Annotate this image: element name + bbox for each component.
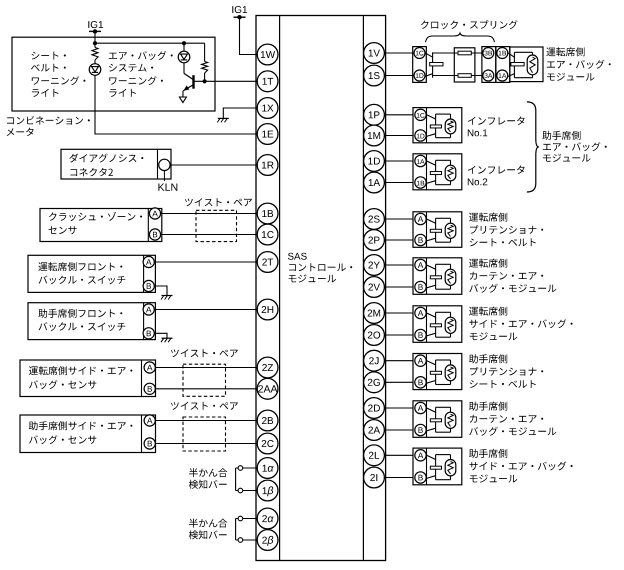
driver airbag module box (508, 47, 543, 82)
wire bus to resistor (204, 43, 206, 61)
wire 1S to clock spring (385, 75, 414, 77)
label twisted pair 3 (171, 402, 238, 410)
pin 1D (364, 151, 385, 172)
wire 1D to inflator 2 (385, 160, 414, 162)
wire 2J to passenger pretensioner seat belt (385, 360, 414, 362)
passenger side airbag module label (469, 449, 573, 483)
wire A to pin 1B (161, 213, 257, 215)
node lamp bus junction (182, 41, 186, 45)
half engagement detection bar 2 (236, 516, 257, 542)
pin 1E (257, 124, 278, 145)
airbag warning lamp (178, 43, 190, 73)
driver side airbag module label (469, 307, 573, 341)
wire 2D to passenger curtain airbag module (385, 407, 414, 409)
wire A to pin 2Z (155, 367, 257, 369)
label KLN (158, 184, 177, 191)
wire B to ground 2 (154, 333, 167, 338)
wire lamp bus (95, 42, 205, 44)
terminal B (passenger buckle) (143, 328, 154, 339)
wire lamp to pin 1E (95, 75, 257, 134)
driver side airbag module box (413, 306, 462, 343)
pin 2P (364, 230, 385, 251)
label clock spring (421, 20, 518, 29)
pin 1T (257, 71, 278, 92)
pin 2Y (364, 255, 385, 276)
diagnosis connector box (61, 149, 171, 179)
driver side airbag sensor box (20, 360, 156, 397)
resistor seat belt lamp (92, 43, 98, 64)
node IG1 junction (93, 41, 97, 45)
half engagement detection bar 1 (236, 466, 257, 493)
driver front buckle switch label (38, 262, 125, 284)
wire IG1 to pin 1W (240, 17, 258, 54)
pin 1a (257, 458, 278, 479)
terminal A (driver side sensor) (144, 362, 155, 373)
combination meter label (7, 116, 90, 136)
label half engagement 1 (189, 468, 228, 489)
wire clock spring lower (433, 75, 482, 77)
pin 1R (257, 155, 278, 176)
clock spring connector 1 (413, 47, 427, 83)
pin 2C (257, 433, 278, 454)
pin 2J (364, 350, 385, 371)
wire A to pin 2T (154, 261, 257, 263)
wire 2A to passenger curtain airbag module (385, 429, 414, 431)
clock spring connector 3B/3A (482, 47, 496, 83)
terminal A (driver buckle) (143, 256, 154, 267)
wire 2Y to driver curtain airbag module (385, 264, 414, 266)
wire clock spring upper (433, 52, 482, 54)
label twisted pair 1 (185, 198, 252, 206)
SAS control module body (256, 16, 386, 561)
driver airbag module label (546, 47, 610, 80)
ground (pin 1X) (217, 118, 229, 122)
terminal A (passenger buckle) (143, 304, 154, 315)
passenger side airbag sensor box (20, 415, 156, 453)
pin 2H (257, 299, 278, 320)
pin 2AA (257, 378, 278, 399)
wire 2O to driver side airbag module (385, 334, 414, 336)
driver pretensioner seat belt box (413, 212, 462, 248)
pin 2T (257, 252, 278, 273)
pin 2b (257, 530, 278, 551)
passenger curtain airbag module box (413, 401, 462, 438)
wire 1M to inflator 1 (385, 135, 414, 137)
driver front buckle switch box (28, 255, 155, 292)
wire pin 1X to ground (223, 108, 257, 118)
driver curtain airbag module label (469, 259, 556, 293)
brace passenger airbag module (527, 102, 539, 192)
pin 1S (364, 65, 385, 86)
pin 1W (257, 44, 278, 65)
wire A to pin 2H (154, 309, 257, 311)
inflator No.1 label (468, 117, 525, 137)
label twisted pair 2 (171, 349, 238, 357)
pin 2O (364, 325, 385, 346)
terminal A (passenger side sensor) (144, 415, 155, 426)
wire 2S to driver pretensioner seat belt (385, 218, 414, 220)
pin 1C (257, 224, 278, 245)
wire B to ground 1 (154, 286, 167, 296)
clock spring connector 1B/1A (496, 47, 510, 83)
wire 2P to driver pretensioner seat belt (385, 239, 414, 241)
inflator No.2 (413, 154, 462, 190)
twisted pair shield 3 (183, 417, 226, 451)
wire B to pin 1C (161, 234, 257, 236)
pin 1P (364, 104, 385, 125)
SAS control module label (288, 253, 352, 283)
wire 1P to inflator 1 (385, 114, 414, 116)
driver curtain airbag module box (413, 258, 462, 295)
pin 2D (364, 398, 385, 419)
clock spring mating symbol (425, 52, 443, 77)
seat belt warning lamp (89, 64, 101, 76)
wire base to pin 1T (194, 80, 257, 82)
IG1 terminal (meter) (88, 21, 103, 34)
wire KLN to pin 1R (170, 164, 257, 166)
label half engagement 2 (189, 519, 228, 540)
brace clock spring (426, 33, 495, 42)
wire 2G to passenger pretensioner seat belt (385, 381, 414, 383)
wire 2I to passenger side airbag module (385, 477, 414, 479)
passenger pretensioner seat belt label (469, 354, 543, 388)
driver side airbag sensor label (29, 366, 132, 389)
passenger front buckle switch label (38, 309, 125, 331)
terminal B (crash sensor) (149, 229, 160, 240)
pin 2I (364, 467, 385, 488)
pin 2B (257, 410, 278, 431)
crash zone sensor box (40, 209, 162, 242)
wire 1A to inflator 2 (385, 182, 414, 184)
wire IG1 to lamp circuit (94, 31, 96, 43)
crash zone sensor label (49, 212, 142, 234)
transistor Q1 (183, 73, 194, 97)
pin 2L (364, 445, 385, 466)
wire B to pin 2C (155, 443, 257, 445)
inflator No.2 label (468, 166, 525, 186)
pin 1b (257, 480, 278, 501)
pin 2V (364, 277, 385, 298)
ground (passenger buckle) (161, 338, 173, 342)
wire 2M to driver side airbag module (385, 312, 414, 314)
wire A to pin 2B (155, 420, 257, 422)
terminal B (passenger side sensor) (144, 438, 155, 449)
passenger side airbag sensor label (29, 421, 133, 444)
inflator No.1 (413, 108, 462, 143)
wire B to pin 2AA (155, 388, 257, 390)
driver pretensioner seat belt label (469, 213, 543, 247)
pin 1X (257, 98, 278, 119)
pin 2S (364, 209, 385, 230)
ground (driver buckle) (161, 296, 173, 300)
diagnosis connector label (69, 154, 143, 177)
pin 2a (257, 508, 278, 529)
resistor airbag lamp (202, 62, 208, 82)
ground arrow (emitter) (179, 97, 186, 103)
passenger front buckle switch box (28, 303, 155, 340)
twisted pair shield 1 (196, 210, 237, 241)
node base junction (203, 79, 207, 83)
label seat belt warning light (31, 52, 85, 97)
terminal B (driver side sensor) (144, 383, 155, 394)
pin 2G (364, 372, 385, 393)
terminal A (crash sensor) (149, 208, 160, 219)
pin 2A (364, 420, 385, 441)
wire 2V to driver curtain airbag module (385, 286, 414, 288)
pin 2M (364, 303, 385, 324)
terminal B (driver buckle) (143, 280, 154, 291)
twisted pair shield 2 (183, 364, 226, 396)
label airbag warning light (109, 51, 173, 97)
pin 2Z (257, 357, 278, 378)
pin 1V (364, 43, 385, 64)
IG1 terminal (module) (232, 6, 247, 19)
passenger pretensioner seat belt box (413, 354, 462, 390)
wire 1V to clock spring (385, 52, 414, 54)
passenger side airbag module box (413, 448, 462, 485)
terminal KLN (159, 159, 170, 181)
passenger curtain airbag module label (469, 402, 556, 436)
wire 2L to passenger side airbag module (385, 454, 414, 456)
pin 1B (257, 203, 278, 224)
pin 1A (364, 172, 385, 193)
clock spring body (454, 48, 475, 82)
pin 1M (364, 125, 385, 146)
combination meter box (12, 37, 215, 111)
passenger airbag module label (542, 131, 606, 162)
